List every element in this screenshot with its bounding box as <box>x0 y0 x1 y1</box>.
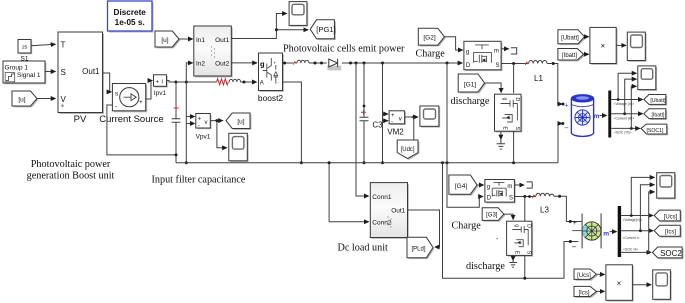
wire discharge mosfet right port to mid bus <box>513 131 515 163</box>
svg-text:×: × <box>617 279 622 288</box>
svg-text:i: i <box>162 80 163 86</box>
battery plus terminal <box>562 103 565 106</box>
terminator after m supercap <box>514 184 524 186</box>
svg-text:v: v <box>399 117 402 123</box>
wire current source plus to Ipv1 <box>146 81 153 100</box>
svg-text:boost2: boost2 <box>258 93 283 103</box>
red tick before boost coil <box>293 62 296 65</box>
svg-text:Current Source: Current Source <box>99 114 163 125</box>
wire discharge mosfet2 right port to return bus <box>524 255 526 278</box>
wires to product supercap <box>596 273 604 275</box>
svg-text:−: − <box>564 124 569 133</box>
bus selector supercap <box>618 206 621 257</box>
scope supercap power <box>653 270 672 301</box>
svg-text:g: g <box>260 60 265 69</box>
svg-text:A: A <box>260 81 264 87</box>
goto tag SOC2 <box>652 247 683 259</box>
svg-text:[u]: [u] <box>18 96 25 103</box>
wire discharge mosfet to ground <box>500 131 502 139</box>
wire product2 to scope <box>632 284 651 286</box>
svg-text:SOC2: SOC2 <box>660 249 682 258</box>
risers to battery scope <box>618 73 636 99</box>
wire Signal1 to PV S <box>45 71 55 73</box>
wire S1 to PV T <box>31 44 55 45</box>
wire [u] to PV V <box>37 98 55 100</box>
svg-text:[G2]: [G2] <box>423 35 435 42</box>
svg-text:[Ubatt]: [Ubatt] <box>650 98 666 104</box>
svg-text:S: S <box>61 68 66 77</box>
return bus vertical x442.5 and bottom <box>443 163 578 278</box>
wire S to L1 to battery plus <box>501 63 528 65</box>
constant block 25 (S1) <box>18 40 32 63</box>
svg-text:Out2: Out2 <box>215 61 229 68</box>
svg-text:Conn1: Conn1 <box>372 194 392 201</box>
svg-text:Ipv1: Ipv1 <box>154 90 167 97</box>
terminator after m <box>501 48 509 50</box>
wire S to L3 to supercap plus <box>514 196 535 198</box>
red tick and inductor L1 <box>525 62 528 65</box>
svg-text:generation Boost unit: generation Boost unit <box>27 170 115 181</box>
svg-text:<Current I>: <Current I> <box>623 236 640 240</box>
wire Out2 to boost2 gate <box>231 62 256 64</box>
goto tag [Ucs] <box>654 210 682 222</box>
svg-text:E: E <box>502 127 508 131</box>
svg-text:[SOC1]: [SOC1] <box>646 128 664 134</box>
svg-text:m: m <box>494 48 499 54</box>
svg-text:S: S <box>525 251 531 255</box>
MOSFET block battery discharge (vertical) <box>495 94 523 132</box>
svg-text:Photovoltaic cells emit power: Photovoltaic cells emit power <box>283 43 405 54</box>
supercap minus terminal <box>569 240 572 243</box>
From tag [G4] <box>449 175 479 196</box>
svg-text:S: S <box>509 196 513 202</box>
svg-text:-: - <box>391 119 393 125</box>
From tag [Ics] bottom <box>574 286 598 298</box>
svg-text:m: m <box>507 184 512 190</box>
svg-text:[PG1]: [PG1] <box>316 25 335 34</box>
svg-text:+: + <box>274 61 277 66</box>
junction node dots on y82 wire <box>174 81 177 84</box>
svg-text:g: g <box>466 49 469 55</box>
svg-text:In1: In1 <box>196 37 205 44</box>
svg-text:[Ics]: [Ics] <box>665 230 676 236</box>
wire product to scope <box>616 44 626 46</box>
svg-text:m: m <box>603 231 609 238</box>
svg-text:g: g <box>502 98 508 101</box>
resistor red zigzag <box>216 79 228 85</box>
goto tag [Udc] pointing down <box>397 140 419 160</box>
svg-text:Charge: Charge <box>416 49 446 60</box>
wire S junction down to discharge mosfet2 <box>524 197 526 222</box>
PV block <box>58 32 104 125</box>
svg-text:[u]: [u] <box>161 37 168 44</box>
svg-text:Conn2: Conn2 <box>372 220 392 227</box>
wire current source minus return <box>107 105 176 155</box>
wire G2 to mosfet gate <box>444 37 462 50</box>
svg-text:D: D <box>466 63 471 69</box>
goto tag [SOC1] <box>641 124 668 135</box>
From tag [u] feeding In1 <box>155 31 180 48</box>
svg-text:[Ubatt]: [Ubatt] <box>561 35 579 41</box>
goto tag [Ubatt] <box>644 95 667 106</box>
svg-text:S: S <box>514 127 520 131</box>
scope supercap measurements <box>657 173 676 200</box>
VM2 riser from bus to mid bus <box>382 63 384 163</box>
product block supercap power <box>606 265 634 302</box>
From tag [G3] <box>482 208 505 222</box>
bus selector battery <box>608 91 611 138</box>
MOSFET block battery charge <box>464 41 503 71</box>
junction PV return joins capacitor <box>175 153 178 156</box>
svg-text:-: - <box>496 236 499 243</box>
wire G1 to discharge mosfet gate <box>485 83 502 93</box>
goto tag [PG1] <box>310 20 336 40</box>
svg-text:[PLd]: [PLd] <box>411 246 425 252</box>
goto tag [u] from Vpv1 <box>226 113 251 130</box>
svg-text:g: g <box>514 224 520 227</box>
svg-text:PV: PV <box>74 114 87 125</box>
svg-text:Charge: Charge <box>452 221 482 232</box>
capacitor C1 input filter with red plus <box>172 82 181 163</box>
diode with snubber <box>327 59 341 71</box>
ground symbol supercap <box>509 260 517 268</box>
voltage measurement VM2 <box>387 111 406 137</box>
current measurement Ipv1 <box>154 75 168 97</box>
svg-text:D: D <box>525 224 531 228</box>
svg-text:+: + <box>391 113 395 119</box>
goto tag [PLd] point right <box>407 237 434 259</box>
svg-text:D: D <box>514 98 520 102</box>
svg-text:In2: In2 <box>196 61 205 68</box>
wire G3 to discharge mosfet2 gate <box>504 214 513 219</box>
voltage measurement Vpv1 <box>196 114 212 141</box>
svg-text:Input filter capacitance: Input filter capacitance <box>152 175 246 186</box>
svg-text:+: + <box>139 99 143 106</box>
measurement subsystem In1/In2/Out1/Out2 <box>194 26 233 77</box>
junction dots on mid bus <box>441 161 444 164</box>
From tag [Ubatt] top right <box>558 30 586 45</box>
wire G4 to mosfet2 gate <box>477 184 484 186</box>
wire PV Out1 to current source s <box>103 73 112 92</box>
svg-text:[Ucs]: [Ucs] <box>664 214 678 220</box>
svg-text:Out1: Out1 <box>391 208 405 215</box>
svg-text:−: − <box>572 243 577 252</box>
svg-text:[Udc]: [Udc] <box>401 147 415 153</box>
From tag [G2] <box>418 28 446 46</box>
wire [u] to In1 <box>179 38 193 40</box>
Conn2 wire from mid bus <box>329 163 368 222</box>
From tag [Ucs] bottom <box>574 269 598 281</box>
svg-text:1e-05 s.: 1e-05 s. <box>115 18 145 27</box>
supercapacitor icon <box>572 213 601 248</box>
goto tag [Ics] <box>654 225 682 237</box>
svg-text:Discrete: Discrete <box>114 8 147 17</box>
junction dots on top bus <box>283 62 286 65</box>
scope Udc <box>420 106 440 128</box>
scope Vpv1 <box>229 133 249 162</box>
svg-text:Vpv1: Vpv1 <box>196 134 211 141</box>
svg-text:Dc load unit: Dc load unit <box>338 243 389 254</box>
svg-text:[G3]: [G3] <box>486 213 498 219</box>
svg-text:C3: C3 <box>372 120 383 129</box>
DC load subsystem block <box>370 183 409 239</box>
MOSFET block supercap charge <box>485 180 516 204</box>
bus selector outputs to tags battery <box>611 99 642 101</box>
goto tag [Ibatt] <box>644 109 667 120</box>
wire Out1 to scope and PG1 <box>231 14 286 39</box>
Conn1 feeder from top bus <box>356 63 369 196</box>
svg-text:+: + <box>156 80 160 86</box>
svg-text:m: m <box>594 113 600 120</box>
svg-text:Out1: Out1 <box>82 67 100 76</box>
capacitor C3 <box>360 63 384 163</box>
svg-text:[u]: [u] <box>237 119 244 126</box>
svg-text:[Ibatt]: [Ibatt] <box>652 112 666 118</box>
svg-text:[Ics]: [Ics] <box>578 290 589 296</box>
battery block (blue cylinder) <box>571 95 593 137</box>
svg-text:[G1]: [G1] <box>464 81 476 88</box>
bus selector outputs supercap <box>621 215 653 217</box>
svg-text:g: g <box>487 184 490 190</box>
powergui block Discrete 1e-05 s. <box>108 1 154 33</box>
svg-text:<SOC %>: <SOC %> <box>623 247 638 251</box>
wires to product battery <box>585 36 589 38</box>
inductor coil after boost2 <box>297 60 309 63</box>
mid DC bus y162.8 <box>176 162 558 164</box>
wire VM2 out to scope and Udc <box>405 116 418 118</box>
svg-text:discharge: discharge <box>466 261 505 272</box>
wire Out1 to PLd goto <box>408 210 440 247</box>
Vpv1 riser and In2 riser <box>186 63 192 82</box>
From tag [Ibatt] top right <box>558 49 585 62</box>
IGBT block boost2 <box>258 53 284 103</box>
risers to supercap scope <box>631 177 654 215</box>
wire discharge mosfet2 to ground <box>512 255 514 260</box>
svg-text:+: + <box>198 117 202 123</box>
svg-text:v: v <box>205 120 208 126</box>
svg-text:E: E <box>514 251 520 255</box>
svg-text:25: 25 <box>22 45 28 51</box>
svg-text:V: V <box>61 95 67 104</box>
svg-text:×: × <box>600 42 605 51</box>
svg-text:<Voltage(V)>: <Voltage(V)> <box>623 218 643 222</box>
svg-text:T: T <box>61 41 66 50</box>
red tick and inductor L3 <box>532 195 535 198</box>
svg-text:L1: L1 <box>534 74 543 83</box>
signal builder Group 1 / Signal 1 <box>3 61 46 84</box>
svg-text:<SOC (%)>: <SOC (%)> <box>614 131 632 135</box>
wire Vpv1 v out to [u] goto and scope <box>210 120 222 122</box>
svg-text:L3: L3 <box>540 206 549 215</box>
boost2 emitter elbow to mid bus <box>283 82 302 163</box>
mid bus corner up to battery minus <box>558 124 562 163</box>
wire S junction down to discharge mosfet <box>513 64 515 94</box>
ground symbol battery <box>497 139 505 149</box>
scope PG1 <box>289 2 308 27</box>
vertical from top bus to lower circuit x447 <box>447 63 483 207</box>
inductor coil on PV wire <box>229 79 240 82</box>
svg-text:Out1: Out1 <box>215 37 229 44</box>
svg-text:+: + <box>564 102 568 109</box>
svg-text:Signal 1: Signal 1 <box>17 72 41 79</box>
svg-text:Group 1: Group 1 <box>5 65 29 72</box>
From tag [u] feeding PV V <box>12 91 38 107</box>
svg-text:[Ucs]: [Ucs] <box>577 273 591 279</box>
scope battery power <box>627 32 646 62</box>
From tag [G1] <box>458 74 486 93</box>
svg-text:[Ibatt]: [Ibatt] <box>562 53 577 59</box>
scope battery measurements <box>638 66 657 91</box>
svg-text:Photovoltaic power: Photovoltaic power <box>31 159 111 170</box>
MOSFET block supercap discharge (vertical) <box>507 221 533 257</box>
svg-text:D: D <box>487 196 492 202</box>
svg-text:discharge: discharge <box>451 96 490 107</box>
svg-text:VM2: VM2 <box>387 128 404 137</box>
svg-text:[G4]: [G4] <box>455 183 467 190</box>
svg-text:-: - <box>198 124 200 130</box>
main top DC bus y63 <box>283 62 294 64</box>
svg-text:S: S <box>495 63 499 69</box>
wire Ipv1 out to boost2 A with series RL <box>167 81 217 83</box>
current source block <box>112 84 147 113</box>
svg-text:-: - <box>115 103 117 110</box>
product block battery power <box>590 27 618 64</box>
svg-text:+: + <box>573 220 577 227</box>
